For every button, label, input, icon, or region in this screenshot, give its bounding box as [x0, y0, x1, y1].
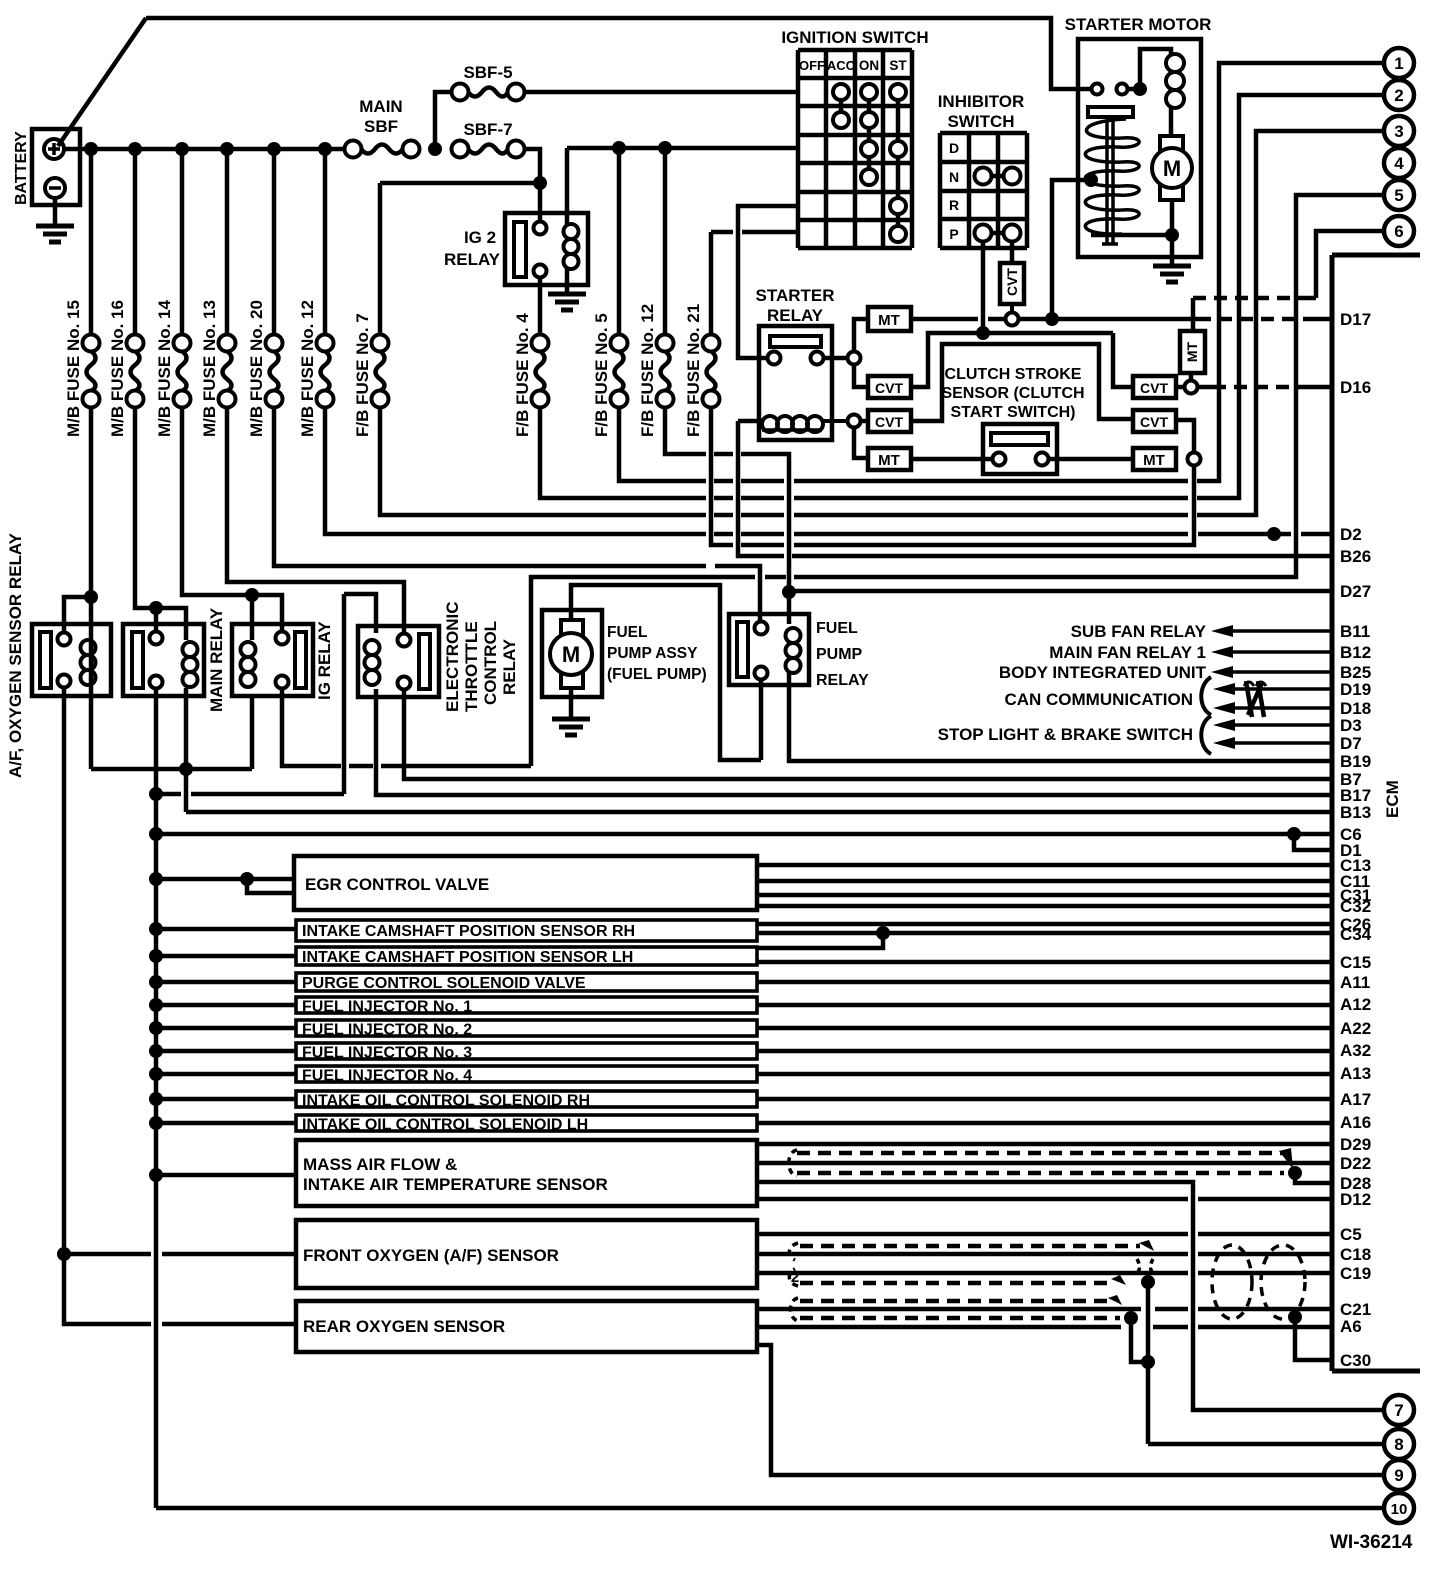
wire D17 line solid b: [1305, 317, 1332, 322]
ignition switch contact ST r1: [890, 84, 906, 100]
node bus cam lh tap: [149, 949, 163, 963]
shield rear o2 cap: [791, 1298, 799, 1321]
wire fuse21 to MT c: [794, 466, 1194, 545]
wire fuse12 to D2 a: [325, 407, 706, 534]
ignition switch contact ON r1: [861, 84, 877, 100]
node D27 junction: [782, 585, 796, 599]
wire fuse21 to MT a: [711, 407, 733, 545]
node bus tap INTAKE OIL CONTROL SOLENOID RH: [149, 1092, 163, 1106]
wire B11 arrow: [1211, 625, 1233, 637]
coil A/F relay: [81, 640, 96, 655]
wire fuse20 to fuel pump relay: [715, 566, 760, 622]
wire CVT net to CVT tag right: [1113, 333, 1131, 387]
ground IG2 relay: [548, 292, 586, 297]
wire CVT tag wrap to inner line: [911, 333, 979, 387]
wire ig relay coil stub: [250, 595, 255, 640]
node front o2 feed: [57, 1247, 71, 1261]
wire circuit5 d: [765, 575, 786, 580]
node fuse15 relay feed: [84, 590, 98, 604]
coil FP relay: [786, 628, 801, 643]
wire EGR feed: [156, 877, 294, 882]
shield ellipse left: [1212, 1245, 1252, 1319]
svg-text:D19: D19: [1340, 680, 1371, 699]
svg-text:D17: D17: [1340, 310, 1371, 329]
wire fuse7 to circuit3 c: [741, 513, 784, 518]
wire fuse5 to circuit1 b: [714, 479, 733, 484]
inhibitor contact P1: [975, 225, 992, 242]
pin starter relay coil connector: [823, 419, 847, 423]
starter motor pin1: [1092, 84, 1103, 95]
wire fuse12 to D2 b: [714, 532, 733, 537]
wire A22 line: [757, 1026, 1332, 1031]
svg-text:INTAKE CAMSHAFT POSITION SENSO: INTAKE CAMSHAFT POSITION SENSOR LH: [302, 949, 633, 966]
box FUEL INJECTOR No. 2: [296, 1020, 757, 1036]
wire main bus to etc coil: [157, 792, 181, 797]
wire clutch switch to MT3 tag: [1049, 457, 1131, 462]
svg-text:START SWITCH): START SWITCH): [950, 404, 1075, 421]
svg-text:RELAY: RELAY: [767, 306, 824, 325]
wire C5 line a: [757, 1232, 1188, 1237]
svg-text:INTAKE OIL CONTROL SOLENOID RH: INTAKE OIL CONTROL SOLENOID RH: [302, 1093, 590, 1110]
shield maf arrow: [1279, 1148, 1293, 1169]
relay FP pin2: [755, 667, 768, 680]
battery plus terminal: [44, 139, 64, 159]
svg-text:B11: B11: [1340, 622, 1370, 641]
wire battery diagonal to top bus: [58, 18, 146, 146]
wire MTv top to circuit6 dash: [1191, 298, 1196, 331]
wire IG2 contact pin1 stub: [538, 183, 543, 222]
wire SBF-5 feed: [435, 92, 452, 149]
node bus junction x=227: [220, 142, 234, 156]
pin MT3 connector: [1176, 457, 1177, 461]
node ig relay coil feed: [245, 588, 259, 602]
wire fuse4 to circuit2 e: [1197, 95, 1384, 498]
clutch switch box: [983, 424, 1057, 474]
fuse SBF-7: [452, 141, 469, 158]
wire fuse5 to circuit1 a: [619, 407, 706, 481]
svg-text:FUEL INJECTOR No. 2: FUEL INJECTOR No. 2: [302, 1022, 472, 1039]
svg-text:F/B FUSE No. 4: F/B FUSE No. 4: [513, 313, 532, 437]
ignition switch contact ON r3: [861, 141, 877, 157]
svg-text:A6: A6: [1340, 1317, 1362, 1336]
brace CAN: [1201, 677, 1211, 715]
starter solenoid T bar: [1088, 107, 1133, 117]
wire C21 line a: [757, 1307, 1141, 1312]
wire fuse4 to circuit2 d: [794, 496, 1188, 501]
starter motor armature rect: [1160, 136, 1183, 200]
wire fuse5fb upper: [617, 148, 622, 336]
wire A6 line c: [1198, 1325, 1332, 1330]
node fuse FB12 tap: [658, 141, 672, 155]
box EGR CONTROL VALVE: [294, 856, 757, 910]
fuel pump assy box: [542, 610, 602, 697]
wire MTv stem: [1189, 373, 1194, 381]
wire circuit5 riser: [531, 577, 755, 766]
relay IG2 contact bar: [514, 222, 526, 277]
starter relay pin1: [768, 352, 781, 365]
node bus junction x=135: [128, 142, 142, 156]
wire EGR feed 2: [247, 879, 294, 893]
svg-text:D3: D3: [1340, 716, 1362, 735]
svg-text:A13: A13: [1340, 1064, 1371, 1083]
svg-text:ELECTRONIC: ELECTRONIC: [443, 602, 462, 713]
relay IG pin1: [276, 632, 289, 645]
relay A/F contact bar: [40, 632, 51, 688]
svg-text:F/B FUSE No. 5: F/B FUSE No. 5: [592, 313, 611, 437]
wire A6 line b: [1153, 1325, 1188, 1330]
svg-text:RELAY: RELAY: [444, 250, 501, 269]
fuse M/B FUSE No. 15: [83, 335, 100, 352]
svg-text:CVT: CVT: [1004, 268, 1020, 296]
wire main relay output bus: [154, 689, 159, 1508]
relay IG pin2: [276, 676, 289, 689]
node bus maf tap: [149, 1168, 163, 1182]
wire fuse14 lower: [182, 407, 248, 595]
wire CVT4 to MT3 connector: [1176, 420, 1194, 452]
svg-text:A17: A17: [1340, 1090, 1371, 1109]
svg-text:IG 2: IG 2: [464, 228, 496, 247]
relay A/F box: [32, 624, 111, 696]
wire C34 line: [757, 931, 1332, 936]
wire maf third to circuit7: [757, 1182, 1384, 1410]
svg-text:RELAY: RELAY: [816, 672, 869, 689]
node starter motor solenoid junction: [1133, 82, 1147, 96]
wire circuit10 line: [156, 1506, 1384, 1511]
connector circuit 10: [1384, 1493, 1414, 1523]
svg-text:PURGE CONTROL SOLENOID VALVE: PURGE CONTROL SOLENOID VALVE: [302, 975, 586, 992]
pin starter relay MT/CVT connector: [848, 352, 861, 365]
fuel pump motor rect top: [561, 620, 583, 639]
wire fp pin2 to motor: [759, 680, 764, 760]
wire circuit6 solid: [1301, 296, 1316, 301]
svg-text:C30: C30: [1340, 1351, 1371, 1370]
wire ig relay contact feed: [252, 595, 282, 632]
svg-text:STARTER MOTOR: STARTER MOTOR: [1065, 15, 1212, 34]
node EGR branch: [240, 872, 254, 886]
svg-text:C19: C19: [1340, 1264, 1371, 1283]
wire circuit5 e: [794, 195, 1384, 577]
wire fuse13 to etc relay: [227, 407, 404, 634]
node inhibitor to CVT net: [976, 326, 990, 340]
node bus tap FUEL INJECTOR No. 1: [149, 998, 163, 1012]
wire C21 line c: [1198, 1307, 1332, 1312]
tag MT vertical: [1180, 331, 1205, 373]
wire F/B fuse7 feed line: [380, 181, 540, 186]
svg-text:2: 2: [1394, 86, 1403, 105]
shield front o2 top arrow: [1139, 1240, 1154, 1251]
svg-text:D29: D29: [1340, 1135, 1371, 1154]
wire D1 branch: [1294, 834, 1332, 850]
wire M/B FUSE No. 12 upper: [323, 149, 328, 336]
svg-text:10: 10: [1391, 1501, 1408, 1518]
shield rear o2 top dash: [800, 1299, 1108, 1304]
connector circuit 2: [1384, 80, 1414, 110]
svg-text:SBF-7: SBF-7: [463, 120, 512, 139]
wire D22 line: [757, 1161, 1332, 1166]
fuse M/B FUSE No. 13: [219, 335, 236, 352]
wire A32 line: [757, 1049, 1332, 1054]
wire D3 arrow: [1213, 719, 1235, 731]
wire CVT net line: [983, 331, 1113, 336]
node bus EGR tap: [149, 872, 163, 886]
wire main coil to B13: [184, 688, 189, 812]
wire fuse12fb to fp coil b: [714, 452, 733, 457]
wire B13 line: [186, 810, 1332, 815]
relay FP contact bar: [737, 622, 748, 677]
relay FP box: [729, 614, 809, 685]
wire circuit6 dashed: [1193, 296, 1301, 301]
wire ig coil drop: [250, 696, 255, 769]
node bus junction x=325: [318, 142, 332, 156]
wire IG2 coil ground stub: [565, 268, 570, 294]
wire fuse4 to circuit2 b: [714, 496, 733, 501]
svg-text:2: 2: [791, 1269, 799, 1286]
svg-text:M: M: [562, 642, 580, 667]
wire starter relay coil to B26: [738, 421, 784, 556]
box INTAKE CAMSHAFT POSITION SENSOR LH: [296, 947, 757, 965]
tag CVT below inhibitor: [1000, 263, 1024, 304]
wire connector to MT tag: [854, 319, 866, 351]
wire top bus to starter motor: [146, 18, 1094, 89]
wire M/B FUSE No. 13 upper: [225, 149, 230, 336]
fuse M/B FUSE No. 12: [317, 335, 334, 352]
svg-text:M/B FUSE No. 14: M/B FUSE No. 14: [155, 299, 174, 437]
wire circuit6 riser: [1316, 231, 1384, 298]
wire C31 line: [757, 893, 1332, 898]
ignition switch contact ACC r1: [833, 84, 849, 100]
tag MT3 right: [1133, 448, 1176, 470]
svg-text:D16: D16: [1340, 378, 1371, 397]
wire A/F pin2 down: [62, 687, 67, 1254]
shield front o2 cap: [789, 1243, 798, 1286]
wire fuse7 to circuit3 e: [1197, 131, 1384, 515]
svg-text:B12: B12: [1340, 643, 1371, 662]
wire feed INTAKE OIL CONTROL SOLENOID LH: [156, 1121, 296, 1126]
node rear o2 shield drain: [1124, 1311, 1138, 1325]
tag MT2 starter: [868, 448, 911, 470]
wire solenoid link: [1091, 233, 1172, 238]
shield rear o2 top arrow: [1108, 1295, 1122, 1305]
starter motor pin2: [1117, 84, 1128, 95]
wire fuse16 lower: [135, 407, 152, 608]
wire IG2 pin2 to fuse4: [538, 277, 543, 336]
ignition switch ACC column link: [839, 92, 844, 120]
ignition switch ON column link: [867, 92, 872, 177]
box INTAKE OIL CONTROL SOLENOID LH: [296, 1115, 757, 1131]
wire C5 line b: [1198, 1232, 1332, 1237]
wire coil to motor: [1169, 108, 1174, 136]
wire fuse5 to circuit1 c: [741, 479, 784, 484]
ignition switch contact ACC r2: [833, 112, 849, 128]
node bus tap FUEL INJECTOR No. 2: [149, 1021, 163, 1035]
wire fuse12 to D2 c: [741, 532, 784, 537]
svg-text:P: P: [949, 226, 958, 242]
tag MT starter: [868, 307, 911, 331]
inhibitor contact N2: [1004, 168, 1021, 185]
wire motor to ground node: [1170, 200, 1175, 257]
svg-text:MT: MT: [878, 452, 900, 469]
node shields join: [1141, 1355, 1155, 1369]
svg-text:STOP LIGHT & BRAKE SWITCH: STOP LIGHT & BRAKE SWITCH: [938, 725, 1193, 744]
coil IG relay: [241, 642, 256, 657]
relay ETC contact bar: [419, 634, 430, 689]
wire M/B FUSE No. 14 upper: [180, 149, 185, 336]
coil IG2 relay: [564, 224, 579, 239]
svg-text:MT: MT: [878, 312, 900, 329]
wire D17 line dashed: [1198, 317, 1305, 322]
wire C32 line: [757, 904, 1332, 909]
connector circuit 6: [1384, 216, 1414, 246]
wire inhibitor col2 drop: [981, 241, 986, 330]
wire C13 line: [757, 863, 1332, 868]
wire main bus to etc coil b: [191, 792, 344, 797]
wire fuse12 to D2 e: [1198, 532, 1291, 537]
connector circuit 9: [1384, 1460, 1414, 1490]
wire A6 line a: [757, 1325, 1121, 1330]
svg-text:MT: MT: [1184, 341, 1200, 362]
node front o2 shield drain: [1141, 1275, 1155, 1289]
ground starter motor: [1170, 257, 1175, 266]
wire front o2 feed a: [64, 1252, 151, 1257]
svg-text:CVT: CVT: [875, 414, 903, 430]
ignition switch contact ON r4: [861, 169, 877, 185]
wire IG2 coil riser: [565, 148, 570, 224]
svg-text:5: 5: [1394, 186, 1403, 205]
wire coil connector to MT2 tag: [854, 428, 866, 458]
wire connector to CVT tag: [854, 365, 866, 387]
starter relay box: [759, 326, 832, 440]
pin CVT tag connector: [1010, 304, 1014, 313]
svg-text:INTAKE CAMSHAFT POSITION SENSO: INTAKE CAMSHAFT POSITION SENSOR RH: [302, 923, 635, 940]
ignition switch contact ST r6: [890, 226, 906, 242]
wire MT tag to D17 b: [988, 317, 1005, 322]
svg-text:4: 4: [1394, 154, 1404, 173]
ECM top edge: [1332, 253, 1420, 258]
svg-text:D12: D12: [1340, 1190, 1371, 1209]
relay MAIN pin1: [150, 632, 163, 645]
connector circuit 7: [1384, 1395, 1414, 1425]
svg-text:CVT: CVT: [1140, 414, 1168, 430]
relay FP pin1: [755, 622, 768, 635]
fuse F/B FUSE No. 5: [611, 335, 628, 352]
node bus cam rh tap: [149, 922, 163, 936]
wire front o2 feed b: [162, 1252, 296, 1257]
connector circuit 8: [1384, 1429, 1414, 1459]
inhibitor N link: [983, 174, 1012, 179]
inhibitor P link: [983, 231, 1012, 236]
node IG2 feed junction: [533, 176, 547, 190]
svg-text:A16: A16: [1340, 1113, 1371, 1132]
node bus tap INTAKE OIL CONTROL SOLENOID LH: [149, 1116, 163, 1130]
wire C6 line: [156, 832, 1332, 837]
wire CVT3 to D16 connector: [1176, 385, 1184, 390]
svg-text:THROTTLE: THROTTLE: [462, 621, 481, 712]
svg-text:7: 7: [1394, 1401, 1403, 1420]
starter motor box: [1078, 39, 1201, 257]
coil MAIN relay: [183, 642, 198, 657]
wire fuse12 to D2 d: [794, 532, 1188, 537]
shield rear o2 bottom dash: [800, 1316, 1120, 1321]
wire ig pin2 to circuit5 a: [282, 689, 341, 766]
svg-text:SBF-5: SBF-5: [463, 63, 512, 82]
fuse M/B FUSE No. 14: [174, 335, 191, 352]
svg-text:MT: MT: [1143, 452, 1165, 469]
fuse MAIN SBF: [345, 141, 362, 158]
box INTAKE OIL CONTROL SOLENOID RH: [296, 1091, 757, 1107]
connector circuit 3: [1384, 116, 1414, 146]
wire main relay contact stub: [154, 608, 159, 632]
wire ignition ST row6 to fuse21 a: [742, 230, 798, 235]
svg-text:F/B FUSE No. 12: F/B FUSE No. 12: [638, 304, 657, 437]
relay IG2 pin1: [534, 222, 547, 235]
wire rear o2 heater to circuit9: [757, 1345, 1384, 1475]
node bus junction x=182: [175, 142, 189, 156]
clutch switch contact bar: [991, 433, 1048, 445]
battery box: [32, 129, 80, 205]
wire D18 arrow: [1213, 702, 1235, 714]
wire maf feed: [156, 1173, 296, 1178]
fuse M/B FUSE No. 20: [266, 335, 283, 352]
svg-text:M/B FUSE No. 13: M/B FUSE No. 13: [200, 300, 219, 437]
wire coil connector to CVT2 tag: [861, 419, 866, 424]
wire fuel pump top link: [571, 585, 761, 760]
svg-text:FUEL INJECTOR No. 3: FUEL INJECTOR No. 3: [302, 1045, 472, 1062]
svg-text:REAR OXYGEN SENSOR: REAR OXYGEN SENSOR: [303, 1317, 505, 1336]
starter relay contact bar: [770, 336, 821, 347]
svg-text:MAIN RELAY: MAIN RELAY: [207, 607, 226, 712]
wire C21 line b: [1155, 1307, 1188, 1312]
wire fp coil to B19: [789, 672, 1332, 761]
wire C11 line: [757, 879, 1332, 884]
svg-text:SUB FAN RELAY: SUB FAN RELAY: [1071, 622, 1207, 641]
wire feed FUEL INJECTOR No. 2: [156, 1026, 296, 1031]
fuse F/B FUSE No. 7: [372, 335, 389, 352]
wire M/B FUSE No. 20 upper: [272, 149, 277, 336]
clutch switch pin1: [993, 453, 1006, 466]
shield maf top dash: [797, 1151, 1282, 1156]
node ecm shield drain: [1288, 1310, 1302, 1324]
shield maf bottom dash: [797, 1171, 1284, 1176]
wire D19 arrow: [1213, 683, 1235, 695]
tag CVT starter: [868, 376, 911, 398]
wire C30 branch: [1295, 1317, 1332, 1360]
wire etc pin2 to B7: [404, 690, 1332, 779]
wire D28 branch: [1295, 1173, 1332, 1183]
wire MT2 to clutch switch: [911, 457, 992, 462]
relay IG box: [232, 624, 313, 696]
wire feed INTAKE OIL CONTROL SOLENOID RH: [156, 1097, 296, 1102]
wire C15 line: [757, 960, 1332, 965]
svg-text:ECM: ECM: [1383, 780, 1402, 818]
coil starter motor field: [1166, 54, 1184, 72]
svg-text:BATTERY: BATTERY: [13, 131, 30, 205]
node coils junction: [179, 762, 193, 776]
wire C19 line b: [1198, 1271, 1332, 1276]
node starter solenoid S terminal: [1084, 173, 1098, 187]
svg-text:MAIN FAN RELAY 1: MAIN FAN RELAY 1: [1049, 643, 1206, 662]
wire fuel pump ground stem: [569, 688, 574, 719]
svg-text:B19: B19: [1340, 752, 1371, 771]
svg-text:IGNITION SWITCH: IGNITION SWITCH: [781, 28, 928, 47]
svg-text:STARTER: STARTER: [755, 286, 834, 305]
svg-text:CLUTCH STROKE: CLUTCH STROKE: [945, 366, 1082, 383]
relay MAIN box: [123, 624, 204, 696]
svg-text:INHIBITOR: INHIBITOR: [938, 92, 1025, 111]
svg-text:(FUEL PUMP): (FUEL PUMP): [607, 666, 707, 683]
wire D7 arrow: [1213, 737, 1235, 749]
wire fuse12 to D2 f: [1301, 532, 1332, 537]
wire D16 dashed: [1213, 385, 1305, 390]
